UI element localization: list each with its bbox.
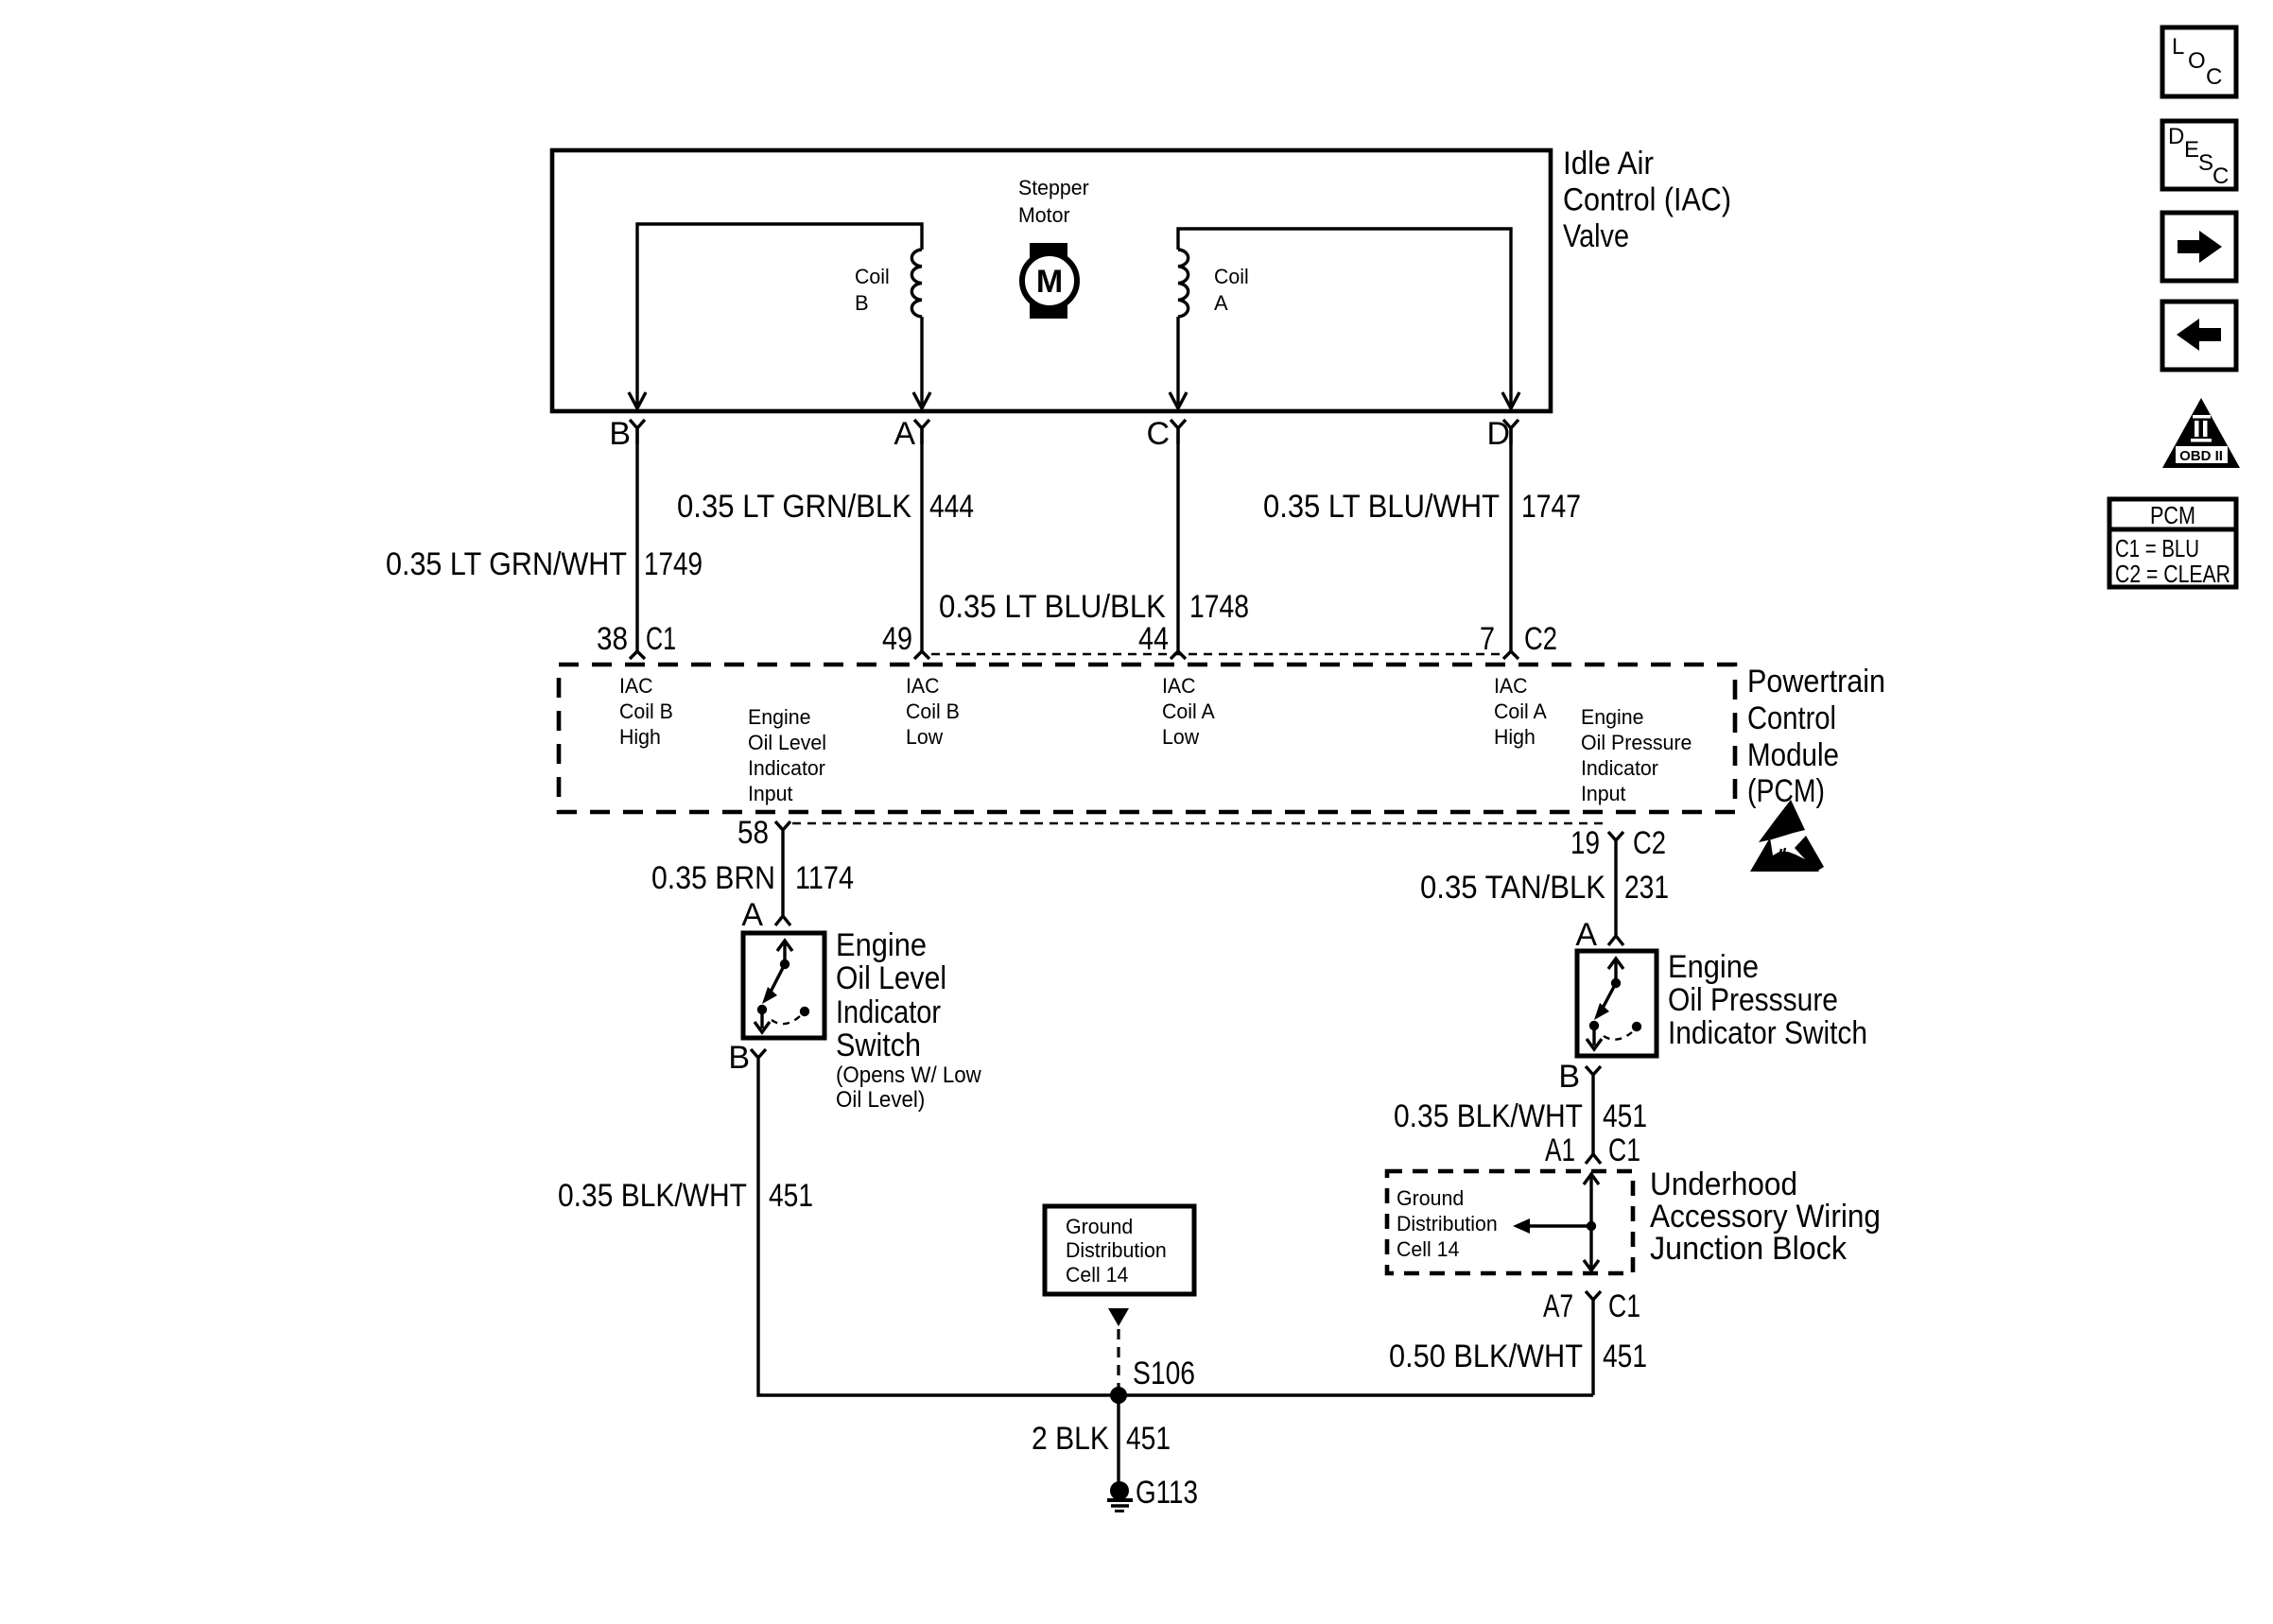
svg-text:Control (IAC): Control (IAC) — [1563, 182, 1731, 218]
svg-text:451: 451 — [1126, 1421, 1171, 1457]
svg-text:C1: C1 — [1608, 1132, 1640, 1168]
ground distribution cell box — [1045, 1206, 1194, 1294]
svg-text:0.35 LT BLU/WHT: 0.35 LT BLU/WHT — [1263, 489, 1500, 525]
svg-text:0.50 BLK/WHT: 0.50 BLK/WHT — [1389, 1339, 1583, 1374]
PCM bottom dashed connector tie line — [792, 822, 1606, 825]
PCM connector legend box — [2109, 499, 2236, 588]
svg-text:0.35 TAN/BLK: 0.35 TAN/BLK — [1420, 870, 1605, 906]
svg-text:Indicator Switch: Indicator Switch — [1668, 1015, 1867, 1051]
svg-text:0.35 LT GRN/BLK: 0.35 LT GRN/BLK — [677, 489, 911, 525]
svg-text:231: 231 — [1624, 870, 1669, 906]
svg-text:IAC: IAC — [1494, 674, 1528, 698]
connector at junction block pin A7 (female Y) — [1586, 1291, 1601, 1395]
svg-text:0.35 BLK/WHT: 0.35 BLK/WHT — [1394, 1098, 1583, 1134]
svg-text:A: A — [1214, 291, 1228, 315]
engine oil level indicator switch box — [743, 933, 824, 1038]
svg-text:Accessory Wiring: Accessory Wiring — [1650, 1199, 1881, 1235]
svg-text:IAC: IAC — [906, 674, 940, 698]
svg-text:S: S — [2198, 150, 2213, 176]
svg-text:B: B — [855, 291, 869, 315]
svg-text:Module: Module — [1747, 737, 1839, 773]
wire: coil A loop (left leg + top + right leg) — [1178, 229, 1511, 405]
svg-text:M: M — [1036, 264, 1063, 300]
coil B inductor (4 bumps bulging right) — [911, 250, 922, 317]
wire A drop to PCM pin 49 — [920, 428, 923, 651]
svg-text:C1 = BLU: C1 = BLU — [2115, 534, 2199, 562]
svg-text:451: 451 — [1603, 1339, 1647, 1374]
PCM dashed outline box — [559, 665, 1735, 812]
svg-text:Coil A: Coil A — [1494, 700, 1547, 723]
svg-text:A: A — [894, 416, 915, 452]
male connector at pin 44 — [1171, 651, 1186, 659]
svg-text:Indicator: Indicator — [836, 994, 941, 1030]
svg-text:Oil Pressure: Oil Pressure — [1581, 731, 1692, 754]
svg-text:Coil: Coil — [855, 265, 890, 288]
OBD II triangle icon — [2162, 398, 2240, 468]
forward arrow icon box — [2162, 213, 2236, 281]
svg-text:A1: A1 — [1545, 1132, 1575, 1168]
LOC icon box — [2162, 27, 2236, 96]
svg-text:C2: C2 — [1633, 825, 1666, 861]
coil A inductor (4 bumps bulging left) — [1178, 250, 1189, 317]
svg-text:1174: 1174 — [795, 860, 854, 896]
svg-text:O: O — [2188, 48, 2206, 74]
ground G113 symbol — [1107, 1481, 1133, 1512]
svg-text:Indicator: Indicator — [1581, 756, 1658, 780]
svg-text:C: C — [1146, 416, 1170, 452]
svg-text:(Opens W/ Low: (Opens W/ Low — [836, 1063, 981, 1088]
svg-text:S106: S106 — [1133, 1356, 1195, 1391]
svg-text:Cell 14: Cell 14 — [1066, 1263, 1128, 1287]
svg-text:Ground: Ground — [1397, 1186, 1464, 1210]
wire C drop to PCM pin 44 — [1176, 428, 1179, 651]
male connector into oil level switch pin A — [775, 916, 790, 925]
svg-text:Coil B: Coil B — [619, 700, 673, 723]
svg-text:Distribution: Distribution — [1397, 1212, 1498, 1235]
svg-text:Engine: Engine — [748, 705, 811, 729]
svg-text:Stepper: Stepper — [1018, 176, 1089, 199]
svg-text:Coil A: Coil A — [1162, 700, 1215, 723]
connector D at valve (female Y) — [1503, 420, 1518, 444]
svg-text:B: B — [609, 416, 631, 452]
svg-text:Indicator: Indicator — [748, 756, 825, 780]
connector at oil pressure switch pin B (female Y) — [1586, 1066, 1601, 1154]
IAC valve outline box — [552, 150, 1551, 411]
svg-text:C: C — [2206, 64, 2222, 90]
connector C at valve (female Y) — [1171, 420, 1186, 444]
connector at PCM pin 58 (female Y) — [775, 821, 790, 915]
svg-text:Oil Level: Oil Level — [748, 731, 826, 754]
svg-text:Engine: Engine — [836, 927, 927, 963]
svg-text:Engine: Engine — [1668, 949, 1759, 985]
svg-text:0.35 BRN: 0.35 BRN — [651, 860, 775, 896]
svg-text:(PCM): (PCM) — [1747, 773, 1825, 809]
svg-text:C2 = CLEAR: C2 = CLEAR — [2115, 560, 2230, 588]
svg-text:451: 451 — [1603, 1098, 1647, 1134]
junction block internal vertical double arrow — [1584, 1174, 1599, 1270]
svg-text:58: 58 — [737, 815, 769, 851]
oil level switch internals — [755, 941, 809, 1032]
svg-text:49: 49 — [882, 621, 912, 657]
connector C2 dashed tie line — [931, 653, 1500, 656]
svg-text:2 BLK: 2 BLK — [1032, 1421, 1109, 1457]
back arrow icon box — [2162, 302, 2236, 370]
svg-text:Low: Low — [1162, 725, 1199, 749]
svg-text:Cell 14: Cell 14 — [1397, 1237, 1459, 1261]
dashed wire from ground distribution to S106 — [1117, 1329, 1119, 1393]
svg-text:A: A — [1575, 917, 1597, 953]
svg-text:IAC: IAC — [1162, 674, 1196, 698]
svg-text:0.35 LT BLU/BLK: 0.35 LT BLU/BLK — [939, 589, 1166, 625]
svg-text:Oil Presssure: Oil Presssure — [1668, 982, 1838, 1018]
oil pressure switch internals — [1587, 959, 1641, 1049]
svg-text:Engine: Engine — [1581, 705, 1644, 729]
svg-text:19: 19 — [1570, 825, 1600, 861]
svg-text:PCM: PCM — [2150, 501, 2195, 529]
connector B at valve (female Y) — [630, 420, 645, 444]
svg-text:L: L — [2172, 34, 2184, 60]
svg-text:Motor: Motor — [1018, 203, 1070, 227]
arrow down at wire D inside valve — [1502, 392, 1519, 408]
svg-text:Distribution: Distribution — [1066, 1238, 1167, 1262]
male connector into oil pressure switch pin A — [1608, 936, 1623, 945]
svg-text:High: High — [1494, 725, 1536, 749]
svg-text:Input: Input — [748, 782, 793, 805]
svg-text:C1: C1 — [646, 621, 676, 657]
svg-text:A: A — [741, 897, 763, 933]
svg-text:Oil Level: Oil Level — [836, 960, 946, 996]
wire: coil B loop (left leg + top + right leg) — [637, 224, 922, 405]
ESD sensitivity symbol — [1750, 800, 1824, 872]
svg-text:Underhood: Underhood — [1650, 1166, 1797, 1202]
male connector at pin 49 — [914, 651, 929, 659]
svg-text:G113: G113 — [1136, 1475, 1198, 1511]
svg-text:A7: A7 — [1543, 1288, 1573, 1324]
svg-text:1749: 1749 — [644, 546, 703, 582]
DESC icon box — [2162, 121, 2236, 189]
wire B drop to PCM pin 38 — [635, 428, 638, 651]
svg-text:C: C — [2212, 164, 2229, 189]
svg-text:38: 38 — [597, 621, 628, 657]
arrow down at coil B wire inside valve — [913, 392, 930, 408]
svg-text:Ground: Ground — [1066, 1215, 1133, 1238]
svg-text:0.35 LT GRN/WHT: 0.35 LT GRN/WHT — [386, 546, 627, 582]
stepper motor M symbol — [1022, 243, 1077, 319]
svg-text:D: D — [2168, 124, 2184, 149]
arrow down at coil A wire inside valve — [1170, 392, 1187, 408]
svg-text:Coil: Coil — [1214, 265, 1249, 288]
svg-text:D: D — [1486, 416, 1510, 452]
splice S106 — [1110, 1387, 1127, 1404]
svg-text:451: 451 — [769, 1178, 813, 1214]
svg-text:B: B — [1558, 1059, 1580, 1095]
male connector at pin 7 — [1503, 651, 1518, 659]
svg-text:1748: 1748 — [1189, 589, 1249, 625]
svg-text:C2: C2 — [1524, 621, 1557, 657]
male connector at pin 38 — [630, 651, 645, 659]
svg-text:Switch: Switch — [836, 1028, 921, 1063]
ground bus wire (oil level B to A7) — [758, 1393, 1593, 1395]
connector at PCM pin 19 (female Y) — [1608, 832, 1623, 935]
connector A at valve (female Y) — [914, 420, 929, 444]
wire D drop to PCM pin 7 — [1509, 428, 1512, 651]
svg-text:IAC: IAC — [619, 674, 653, 698]
svg-text:Valve: Valve — [1563, 218, 1629, 254]
svg-text:Input: Input — [1581, 782, 1626, 805]
ground distribution pointer triangle — [1108, 1308, 1129, 1326]
svg-text:High: High — [619, 725, 661, 749]
svg-text:444: 444 — [929, 489, 974, 525]
underhood junction block dashed box — [1387, 1171, 1633, 1273]
male connector at junction block pin A1 — [1586, 1154, 1601, 1164]
junction block internal arrow to ground distribution — [1526, 1224, 1591, 1227]
svg-text:7: 7 — [1480, 621, 1495, 657]
svg-text:Control: Control — [1747, 700, 1836, 736]
svg-text:44: 44 — [1138, 621, 1169, 657]
svg-text:OBD II: OBD II — [2179, 448, 2223, 464]
connector at oil level switch pin B (female Y) — [751, 1049, 766, 1393]
svg-text:B: B — [728, 1040, 750, 1076]
svg-text:E: E — [2184, 137, 2199, 163]
svg-text:Idle Air: Idle Air — [1563, 146, 1654, 181]
engine oil pressure indicator switch box — [1577, 951, 1657, 1056]
svg-text:0.35 BLK/WHT: 0.35 BLK/WHT — [558, 1178, 747, 1214]
svg-text:Junction Block: Junction Block — [1650, 1231, 1848, 1267]
svg-text:C1: C1 — [1608, 1288, 1640, 1324]
svg-text:Oil Level): Oil Level) — [836, 1087, 925, 1113]
svg-text:Powertrain: Powertrain — [1747, 664, 1885, 700]
arrow down at wire B inside valve — [629, 392, 646, 408]
wire S106 to G113 — [1117, 1395, 1119, 1484]
svg-text:Low: Low — [906, 725, 943, 749]
svg-text:Coil B: Coil B — [906, 700, 960, 723]
svg-text:1747: 1747 — [1521, 489, 1581, 525]
